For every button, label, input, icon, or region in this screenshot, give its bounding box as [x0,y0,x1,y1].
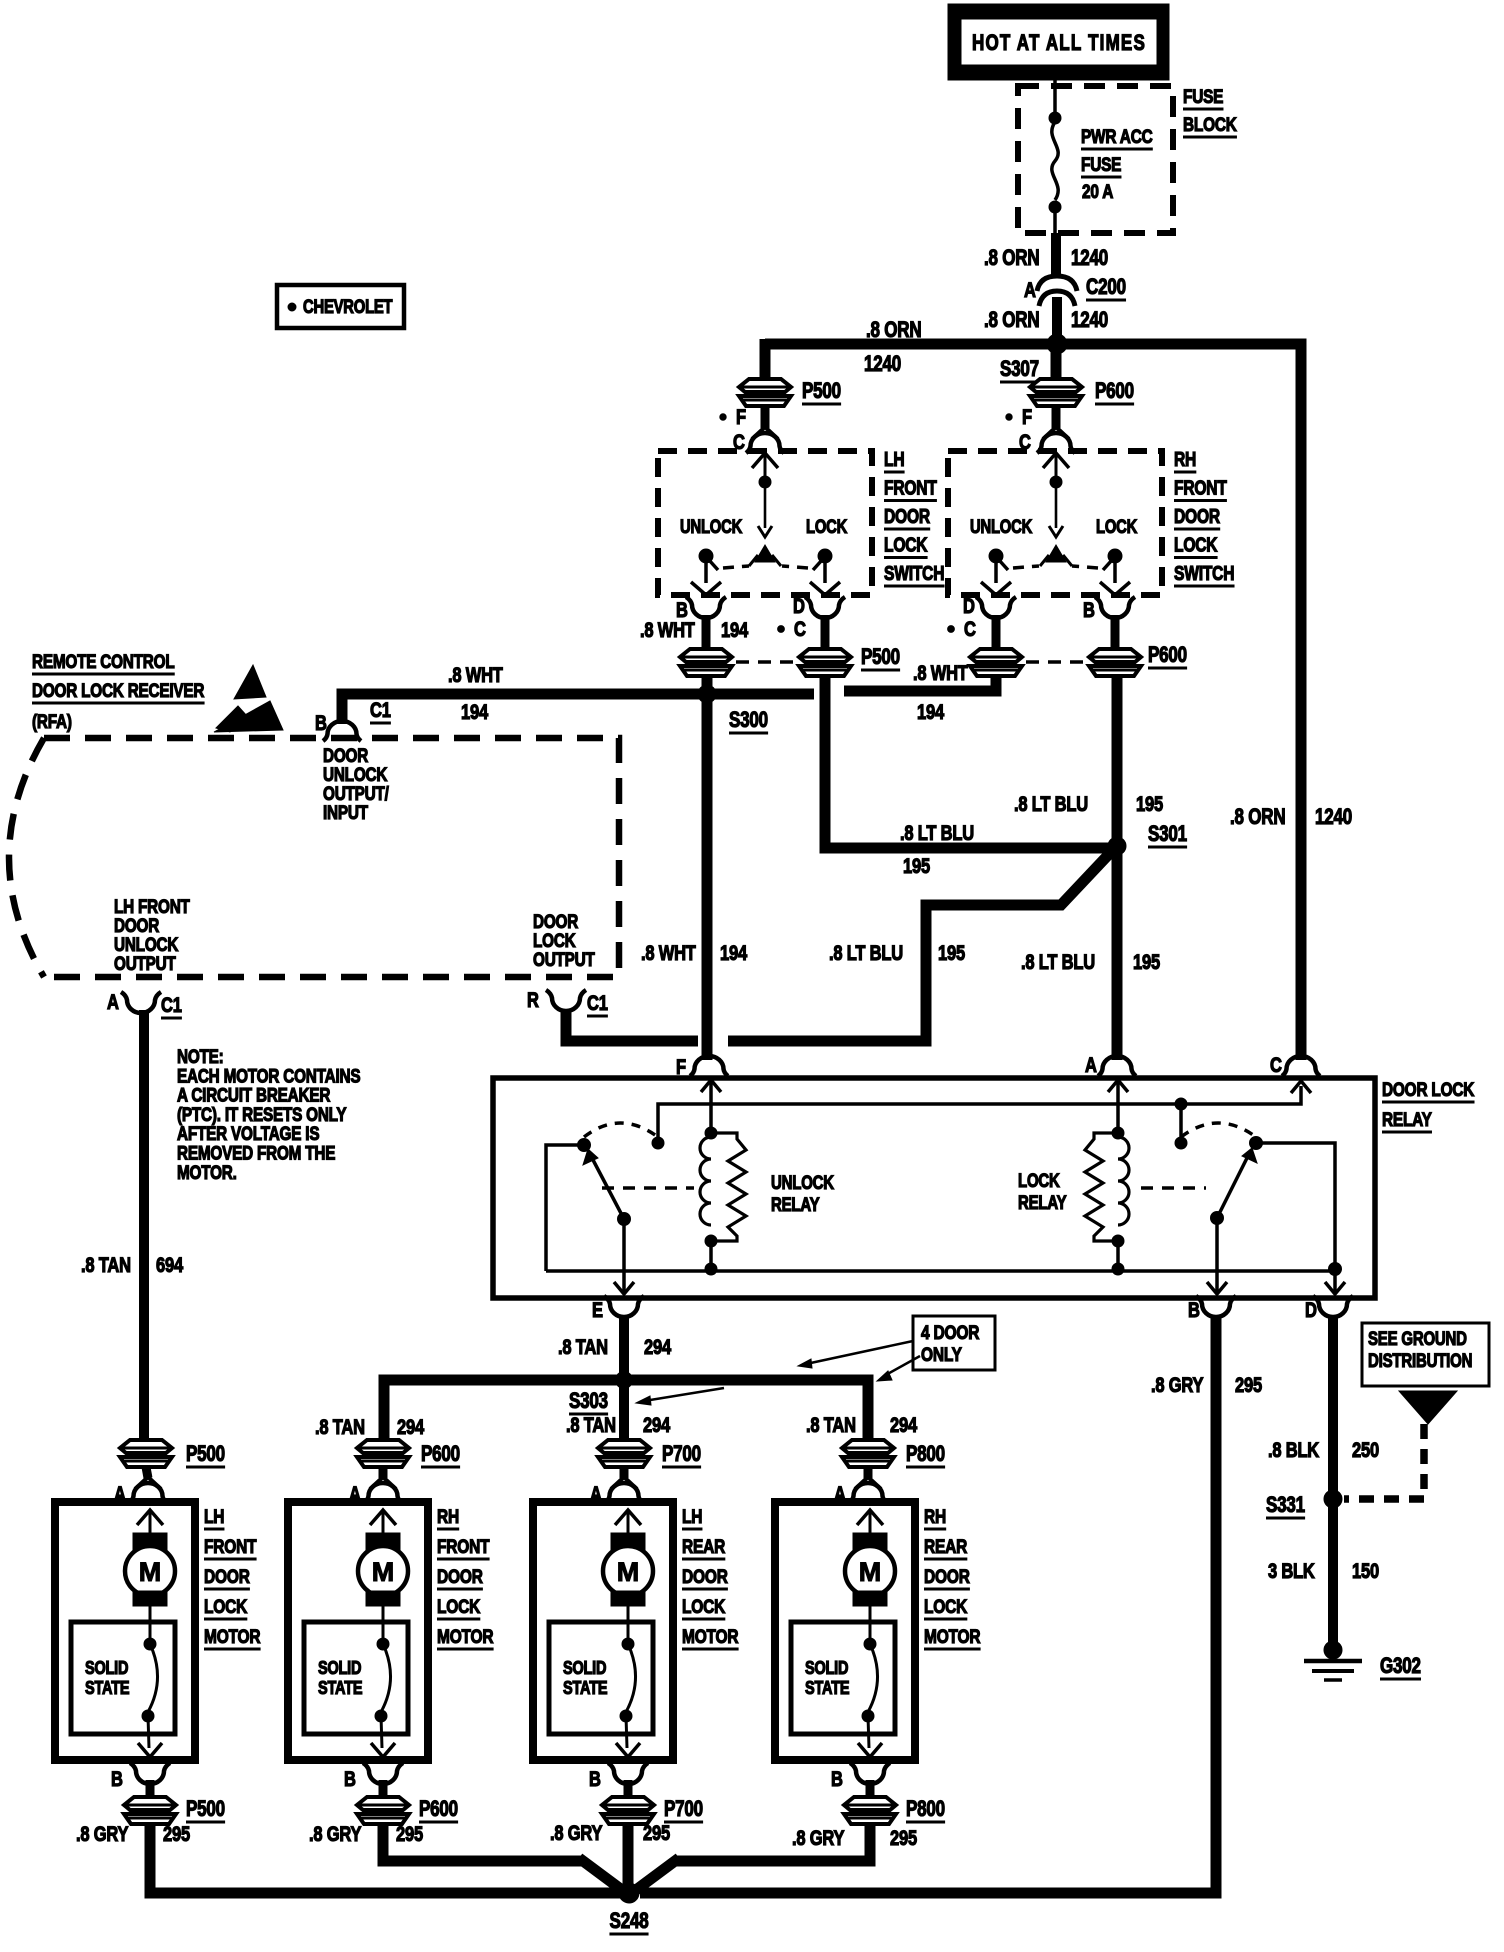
svg-text:1240: 1240 [1315,805,1352,830]
P700 pin A into motor [590,1467,643,1507]
svg-text:FUSE: FUSE [1183,85,1224,107]
LH switch pin B output [676,597,726,651]
svg-text:B: B [589,1768,601,1791]
svg-text:SWITCH: SWITCH [1174,562,1234,584]
unlock coil bottom junction [705,1263,717,1275]
svg-text:D: D [1305,1299,1317,1322]
svg-text:B: B [1188,1299,1200,1322]
lock relay switch armature [1141,1123,1345,1294]
svg-text:194: 194 [721,619,749,642]
svg-text:3 BLK: 3 BLK [1268,1560,1315,1583]
svg-text:P800: P800 [906,1442,945,1467]
svg-text:195: 195 [938,942,965,965]
svg-text:.8 WHT: .8 WHT [913,662,968,685]
splice S303 [616,1372,633,1389]
pin labels F C at P600 [1006,406,1032,454]
relay pin D [1305,1296,1353,1323]
receiver pin A C1 [107,991,182,1018]
svg-text:A: A [1024,279,1036,302]
P500 pin stem into LH switch [746,406,784,453]
wire label .8 GRY 295 P700 [550,1822,670,1845]
svg-text:SOLID: SOLID [805,1657,848,1678]
P700 pin B below motor [589,1763,648,1800]
svg-text:FRONT: FRONT [1174,477,1227,499]
svg-text:294: 294 [644,1336,672,1359]
RH FRONT door lock motor box [288,1502,428,1760]
svg-text:RH: RH [437,1505,459,1527]
svg-text:LOCK: LOCK [1174,534,1218,556]
svg-text:S307: S307 [1000,357,1039,382]
svg-text:.8 GRY: .8 GRY [76,1823,129,1846]
door lock relay box [493,1078,1375,1298]
connector P600 motor return [357,1797,458,1824]
svg-text:LOCK: LOCK [437,1595,480,1617]
svg-text:RELAY: RELAY [771,1193,820,1215]
LOCK contact [782,516,848,595]
svg-text:DOOR: DOOR [1174,505,1220,527]
svg-text:.8 GRY: .8 GRY [550,1822,603,1845]
label DOOR LOCK RELAY [1382,1078,1475,1132]
svg-text:(RFA): (RFA) [32,710,72,732]
svg-text:STATE: STATE [805,1677,849,1698]
svg-text:295: 295 [1235,1374,1262,1397]
svg-text:P700: P700 [664,1797,703,1822]
svg-text:294: 294 [643,1414,671,1437]
svg-text:.8 ORN: .8 ORN [984,308,1039,333]
P600 pin B below motor [344,1763,403,1800]
svg-text:UNLOCK: UNLOCK [771,1171,835,1193]
solid state circuit breaker [304,1622,408,1757]
ground G302 [1304,1641,1362,1680]
svg-text:FRONT: FRONT [204,1535,257,1557]
svg-text:295: 295 [163,1823,190,1846]
svg-text:LOCK: LOCK [924,1595,967,1617]
svg-text:S300: S300 [729,708,768,733]
relay pin C [1270,1054,1320,1077]
P500 pin A into motor [114,1467,167,1507]
switch common feed arm [1040,453,1072,566]
svg-text:SOLID: SOLID [318,1657,361,1678]
svg-text:M: M [372,1557,395,1587]
svg-text:.8 TAN: .8 TAN [315,1416,365,1439]
wire label .8 GRY 295 P800 [792,1827,917,1850]
wire .8 GRY 295 LH rear to S248 [623,1824,634,1888]
LH front door lock switch dashed box [658,451,872,595]
svg-text:295: 295 [890,1827,917,1850]
svg-text:STATE: STATE [563,1677,607,1698]
connector C200 pin A [1024,275,1126,306]
svg-text:DOOR: DOOR [437,1565,483,1587]
svg-text:F: F [736,406,746,429]
svg-text:.8 LT BLU: .8 LT BLU [1014,793,1088,816]
splice S300 [698,685,716,703]
motor M symbol [125,1510,175,1640]
svg-text:S301: S301 [1148,822,1187,847]
motor label [924,1505,981,1649]
svg-text:OUTPUT: OUTPUT [533,948,595,970]
svg-text:SWITCH: SWITCH [884,562,944,584]
wire .8 WHT 194 right segment to RH unlock [844,674,996,691]
motor M symbol [603,1510,653,1640]
splice S301 [1108,837,1126,855]
svg-text:.8 TAN: .8 TAN [558,1336,608,1359]
svg-text:195: 195 [903,855,930,878]
svg-text:S303: S303 [569,1389,608,1414]
wire .8 ORN 1240 C200 to S307 [1052,297,1062,346]
text DOOR UNLOCK OUTPUT/INPUT [323,744,389,823]
svg-text:DOOR LOCK RECEIVER: DOOR LOCK RECEIVER [32,679,205,701]
label FUSE BLOCK [1183,85,1237,137]
P800 pin B below motor [831,1763,890,1800]
svg-text:.8 LT BLU: .8 LT BLU [1021,951,1095,974]
solid state circuit breaker [791,1622,895,1757]
svg-text:ONLY: ONLY [921,1343,962,1365]
svg-text:DOOR: DOOR [204,1565,250,1587]
relay internal bottom bus [546,1269,1335,1273]
svg-text:4 DOOR: 4 DOOR [921,1321,980,1343]
svg-text:B: B [831,1768,843,1791]
svg-text:LOCK: LOCK [1018,1169,1060,1191]
wire .8 BLK 250 relay D to S331 [1328,1316,1338,1496]
svg-text:C200: C200 [1086,275,1126,300]
svg-text:P700: P700 [662,1442,701,1467]
svg-text:S248: S248 [610,1909,649,1934]
wire .8 WHT 194 receiver B to S300 [342,694,814,724]
solid state circuit breaker [549,1622,653,1757]
switch label [884,448,945,586]
svg-text:1240: 1240 [864,352,901,377]
svg-text:DISTRIBUTION: DISTRIBUTION [1368,1349,1472,1371]
svg-text:RELAY: RELAY [1018,1191,1067,1213]
wire .8 GRY 295 RH rear to S248 [674,1824,870,1861]
svg-text:HOT AT ALL TIMES: HOT AT ALL TIMES [972,31,1146,56]
svg-text:C1: C1 [587,992,608,1015]
junction node on feed bus [1175,1098,1187,1149]
svg-text:D: D [963,595,975,618]
svg-text:M: M [139,1557,162,1587]
svg-text:P500: P500 [861,645,900,670]
svg-text:A: A [1085,1054,1097,1077]
svg-text:C: C [964,618,976,641]
svg-text:LH: LH [884,448,904,470]
svg-text:.8 WHT: .8 WHT [448,664,503,687]
svg-text:S331: S331 [1266,1493,1305,1518]
svg-text:RH: RH [924,1505,946,1527]
svg-text:.8 TAN: .8 TAN [81,1254,131,1277]
motor label [682,1505,739,1649]
svg-text:LOCK: LOCK [204,1595,247,1617]
relay internal feed bus from pin C [658,1081,1311,1140]
svg-text:250: 250 [1352,1439,1379,1462]
wire .8 ORN 1240 fuse to C200 [1051,233,1061,277]
motor label [437,1505,494,1649]
wire drop to P500 [760,339,771,381]
svg-text:MOTOR: MOTOR [437,1625,494,1647]
svg-text:P600: P600 [1095,379,1134,404]
dashed ground distribution wire [1344,1424,1424,1499]
svg-text:.8 WHT: .8 WHT [641,942,696,965]
svg-text:195: 195 [1136,793,1163,816]
connector P500 receiver to LH front motor [120,1440,225,1467]
svg-text:FUSE: FUSE [1081,153,1122,175]
svg-text:CHEVROLET: CHEVROLET [303,296,393,317]
wire label .8 WHT 194 at LH B [640,619,695,642]
svg-text:P600: P600 [419,1797,458,1822]
svg-text:MOTOR: MOTOR [924,1625,981,1647]
svg-text:.8 ORN: .8 ORN [984,246,1039,271]
fuse block dashed box [1018,86,1173,233]
wire .8 LT BLU 195 LH lock down and right to S301 [825,674,1111,848]
svg-text:UNLOCK: UNLOCK [970,516,1033,537]
svg-text:UNLOCK: UNLOCK [680,516,743,537]
connector P800 motor return [844,1797,945,1824]
RH REAR door lock motor box [775,1502,915,1760]
P600 pin stem into RH switch [1037,406,1075,453]
label 4 DOOR ONLY [798,1316,995,1381]
svg-text:P500: P500 [186,1797,225,1822]
LH switch pin D output [778,595,845,651]
svg-text:STATE: STATE [318,1677,362,1698]
svg-text:D: D [793,595,805,618]
label SEE GROUND DISTRIBUTION [1362,1323,1489,1424]
svg-text:R: R [527,989,539,1012]
svg-text:.8 GRY: .8 GRY [309,1823,362,1846]
label LOCK RELAY [1018,1169,1067,1213]
wire .8 WHT 194 S300 down to relay F [702,676,713,1060]
ESD sensitive symbol [214,665,283,732]
svg-text:DOOR LOCK: DOOR LOCK [1382,1078,1475,1100]
svg-text:295: 295 [643,1822,670,1845]
svg-text:P500: P500 [802,379,841,404]
svg-text:C1: C1 [370,699,391,722]
RH switch pin B output [1083,597,1135,651]
svg-text:B: B [1083,599,1095,622]
HOT AT ALL TIMES power box [948,4,1169,80]
svg-text:.8 WHT: .8 WHT [640,619,695,642]
svg-text:.8 LT BLU: .8 LT BLU [829,942,903,965]
relay pin A [1085,1054,1136,1077]
svg-text:OUTPUT: OUTPUT [114,952,176,974]
P500 pin B below motor [111,1763,170,1800]
svg-text:LOCK: LOCK [1096,516,1138,537]
label REMOTE CONTROL DOOR LOCK RECEIVER (RFA) [32,650,205,732]
wire .8 TAN 294 S303 to P700 [619,1380,629,1442]
motor M symbol [845,1510,895,1640]
svg-text:DOOR: DOOR [682,1565,728,1587]
label UNLOCK RELAY [771,1171,835,1215]
motor label [204,1505,261,1649]
svg-text:INPUT: INPUT [323,801,368,823]
connector P500 pair below LH switch [680,645,900,676]
wire .8 GRY 295 relay B to S248 [640,1316,1216,1893]
connector P700 motor return [602,1797,703,1824]
main feed wire .8 ORN 1240 horizontal and right drop to relay C [765,344,1301,1060]
wire 3 BLK 150 S331 to G302 [1328,1499,1338,1645]
connector P500 motor return [124,1797,225,1824]
unlock relay switch armature [546,1123,694,1294]
svg-text:694: 694 [156,1254,184,1277]
svg-text:SOLID: SOLID [85,1657,128,1678]
svg-text:.8 TAN: .8 TAN [806,1414,856,1437]
svg-text:M: M [617,1557,640,1587]
splice S307 [1047,334,1067,354]
fuse PWR ACC FUSE 20 A [1049,80,1153,233]
receiver pin B C1 [315,699,391,741]
svg-text:B: B [315,712,327,735]
RH front door lock switch dashed box [948,451,1162,595]
svg-text:LOCK: LOCK [884,534,928,556]
svg-text:1240: 1240 [1071,246,1108,271]
switch common feed arm [749,453,781,566]
wire label .8 GRY 295 P600 [309,1823,423,1846]
svg-text:1240: 1240 [1071,308,1108,333]
svg-text:194: 194 [917,701,945,724]
svg-text:F: F [676,1056,686,1079]
wire label .8 TAN 294 at P600 [315,1416,365,1439]
svg-text:.8 BLK: .8 BLK [1268,1439,1319,1462]
relay pin F [676,1056,728,1080]
svg-text:294: 294 [397,1416,425,1439]
svg-text:.8 TAN: .8 TAN [566,1414,616,1437]
relay pin B [1188,1296,1236,1323]
svg-text:BLOCK: BLOCK [1183,113,1237,135]
svg-text:RH: RH [1174,448,1196,470]
svg-text:REAR: REAR [924,1535,967,1557]
svg-text:294: 294 [890,1414,918,1437]
pin labels F C at P500 [720,406,746,454]
connector P700 door motor feed [598,1440,701,1467]
svg-text:FRONT: FRONT [884,477,937,499]
wire .8 GRY 295 LH front to S248 [150,1824,624,1893]
connector P500 front door [739,379,841,406]
svg-text:DOOR: DOOR [924,1565,970,1587]
unlock relay fixed contact [652,1137,664,1149]
svg-text:DOOR: DOOR [884,505,930,527]
switch label [1174,448,1235,586]
CHEVROLET label box [277,285,404,328]
svg-text:MOTOR.: MOTOR. [177,1161,237,1183]
solid state circuit breaker [71,1622,175,1757]
svg-text:STATE: STATE [85,1677,129,1698]
svg-text:.8 LT BLU: .8 LT BLU [900,822,974,845]
svg-text:C1: C1 [161,994,182,1017]
svg-text:FRONT: FRONT [437,1535,490,1557]
relay pin E [592,1296,644,1323]
text DOOR LOCK OUTPUT [533,910,595,970]
receiver pin R C1 [527,989,608,1016]
svg-text:A: A [107,991,119,1014]
wire label .8 GRY 295 P500 [76,1823,190,1846]
note text each motor contains a circuit breaker [177,1045,361,1183]
svg-text:P800: P800 [906,1797,945,1822]
svg-text:REMOTE CONTROL: REMOTE CONTROL [32,650,175,672]
svg-text:REAR: REAR [682,1535,725,1557]
svg-text:LH: LH [682,1505,702,1527]
svg-text:295: 295 [396,1823,423,1846]
splice S248 [619,1883,639,1903]
svg-text:.8 GRY: .8 GRY [1151,1374,1204,1397]
remote control door lock receiver dashed box [9,738,619,977]
connector P600 front door [1030,344,1134,406]
svg-text:MOTOR: MOTOR [204,1625,261,1647]
wire label .8 TAN 294 at P800 [806,1414,856,1437]
LH REAR door lock motor box [533,1502,673,1760]
svg-text:.8 GRY: .8 GRY [792,1827,845,1850]
svg-text:C: C [1270,1054,1282,1077]
UNLOCK contact [970,516,1039,595]
svg-text:C: C [794,618,806,641]
svg-text:PWR ACC: PWR ACC [1081,125,1153,147]
P800 pin A into motor [834,1467,887,1507]
svg-text:G302: G302 [1380,1654,1421,1679]
svg-text:MOTOR: MOTOR [682,1625,739,1647]
wire .8 GRY 295 RH front to S248 [383,1824,584,1861]
LOCK contact [1072,516,1138,595]
connector P800 door motor feed [842,1440,945,1467]
svg-text:.8 ORN: .8 ORN [1230,805,1285,830]
svg-text:B: B [344,1768,356,1791]
svg-text:E: E [592,1299,603,1322]
svg-text:P600: P600 [1148,643,1187,668]
svg-text:194: 194 [461,701,489,724]
connector P600 door motor feed [357,1440,460,1467]
UNLOCK contact [680,516,749,595]
wire .8 LT BLU 195 S301 branch to receiver R [728,852,1111,1041]
unlock relay coil [700,1080,746,1268]
text LH FRONT DOOR UNLOCK OUTPUT [114,895,190,974]
lock relay coil [1085,1080,1129,1275]
svg-text:LOCK: LOCK [682,1595,725,1617]
P600 pin A into motor [349,1467,402,1507]
wire .8 TAN 694 receiver A to P500 [139,1010,149,1442]
svg-text:M: M [859,1557,882,1587]
wire .8 TAN 294 relay E to S303 [619,1316,629,1380]
svg-text:P600: P600 [421,1442,460,1467]
motor M symbol [358,1510,408,1640]
wire .8 TAN 294 rear door branch [384,1380,868,1442]
svg-text:194: 194 [720,942,748,965]
wire .8 LT BLU 195 S301 label above relay A [1021,951,1095,974]
RH switch pin D output [948,595,1016,651]
svg-text:F: F [1022,406,1032,429]
svg-text:.8 ORN: .8 ORN [866,318,921,343]
svg-text:195: 195 [1133,951,1160,974]
svg-text:LOCK: LOCK [806,516,848,537]
svg-text:LH: LH [204,1505,224,1527]
svg-text:SOLID: SOLID [563,1657,606,1678]
splice S331 [1324,1490,1342,1508]
svg-text:SEE GROUND: SEE GROUND [1368,1327,1467,1349]
svg-text:B: B [111,1768,123,1791]
connector P600 pair below RH switch [970,643,1187,676]
wire .8 LT BLU 195 RH lock down to S301 [1112,674,1123,1060]
svg-text:RELAY: RELAY [1382,1108,1432,1130]
svg-text:150: 150 [1352,1560,1379,1583]
LH FRONT door lock motor box [55,1502,195,1760]
svg-text:20 A: 20 A [1082,180,1114,202]
svg-text:P500: P500 [186,1442,225,1467]
